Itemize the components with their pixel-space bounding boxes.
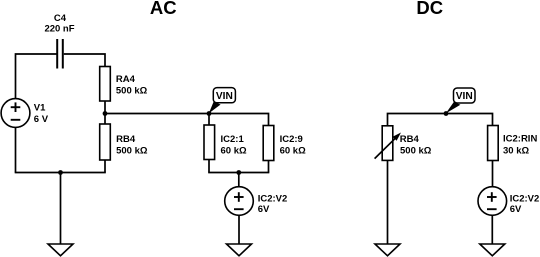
resistor IC2:9 <box>263 126 274 161</box>
wire junction to IC2:V2 <box>238 173 240 188</box>
node junction VIN tap (AC) <box>207 111 212 116</box>
wire RB4 bottom <box>104 160 106 173</box>
voltage source IC2:V2 (DC) <box>478 187 507 216</box>
svg-text:VIN: VIN <box>456 91 473 102</box>
svg-text:AC: AC <box>150 0 177 18</box>
svg-text:C4: C4 <box>54 13 67 24</box>
RB4 value labels <box>116 134 148 157</box>
RA4 value labels <box>116 74 148 96</box>
svg-text:RB4: RB4 <box>116 134 136 145</box>
node junction RA4/RB4 <box>103 111 108 116</box>
variable resistor RB4 (DC) <box>375 126 401 161</box>
wire middle row to IC2:9 <box>105 114 269 126</box>
voltage source V1 <box>1 99 30 128</box>
IC2:9 value labels <box>280 134 306 157</box>
wire IC2:V2 to ground (DC) <box>491 215 493 244</box>
svg-text:60 kΩ: 60 kΩ <box>280 145 306 156</box>
wire bottom left row <box>15 172 106 174</box>
resistor IC2:RIN <box>488 126 499 161</box>
svg-text:30 kΩ: 30 kΩ <box>503 145 529 156</box>
svg-text:DC: DC <box>416 0 443 18</box>
svg-text:220 nF: 220 nF <box>44 24 74 35</box>
node VIN (AC) <box>209 88 236 114</box>
section label AC <box>150 0 177 18</box>
wire RB4 to ground (DC) <box>387 160 389 244</box>
V1 value labels <box>34 103 49 125</box>
ground (DC right) <box>480 244 505 256</box>
wire IC2:V2 to ground <box>238 215 240 244</box>
svg-text:V1: V1 <box>34 103 46 114</box>
resistor RB4 <box>100 124 111 160</box>
svg-text:500 kΩ: 500 kΩ <box>400 145 432 156</box>
svg-text:IC2:RIN: IC2:RIN <box>503 134 537 145</box>
wire junction to RB4 top <box>104 114 106 125</box>
node junction VIN tap (DC) <box>444 111 449 116</box>
C4 value labels <box>44 13 74 35</box>
svg-text:VIN: VIN <box>216 91 233 102</box>
wire top DC row <box>388 114 493 126</box>
capacitor C4 <box>57 39 63 69</box>
voltage source IC2:V2 (AC) <box>225 187 254 216</box>
svg-text:500 kΩ: 500 kΩ <box>116 145 148 156</box>
svg-text:IC2:V2: IC2:V2 <box>258 194 288 205</box>
ground (AC left) <box>48 244 73 256</box>
node VIN (DC) <box>446 88 475 113</box>
wire IC2:RIN to IC2:V2 <box>492 161 494 187</box>
IC2:V2 value labels (DC) <box>510 194 540 215</box>
ground (DC left) <box>375 244 400 256</box>
node junction bottom left <box>58 170 63 175</box>
section label DC <box>416 0 443 18</box>
svg-text:RA4: RA4 <box>116 74 136 85</box>
node junction IC2 bottom <box>236 170 241 175</box>
svg-text:6 V: 6 V <box>34 114 49 125</box>
svg-text:IC2:1: IC2:1 <box>221 134 245 145</box>
IC2:1 value labels <box>221 134 247 157</box>
wire junction to ground <box>60 173 62 245</box>
wire V1 top to C4 <box>16 54 58 99</box>
wire V1 bottom <box>15 127 17 172</box>
wire bottom IC2 row <box>208 172 269 174</box>
wire IC2:1 bottom stub <box>208 160 210 173</box>
svg-text:6V: 6V <box>258 204 270 215</box>
wire C4 to RA4 <box>64 54 105 67</box>
svg-text:IC2:9: IC2:9 <box>280 134 303 145</box>
resistor IC2:1 <box>204 125 215 160</box>
wire IC2:1 top stub <box>208 114 210 126</box>
resistor RA4 <box>100 67 111 102</box>
svg-text:IC2:V2: IC2:V2 <box>510 194 540 205</box>
wire RA4 bottom to junction <box>104 101 106 114</box>
wire IC2:9 bottom stub <box>268 161 270 173</box>
svg-text:RB4: RB4 <box>400 134 420 145</box>
svg-text:6V: 6V <box>510 204 522 215</box>
ground (AC IC2) <box>227 244 252 256</box>
svg-text:60 kΩ: 60 kΩ <box>221 145 247 156</box>
IC2:RIN value labels <box>503 134 537 157</box>
IC2:V2 value labels (AC) <box>258 194 288 215</box>
svg-text:500 kΩ: 500 kΩ <box>116 86 148 97</box>
RB4 value labels (DC) <box>400 134 432 157</box>
